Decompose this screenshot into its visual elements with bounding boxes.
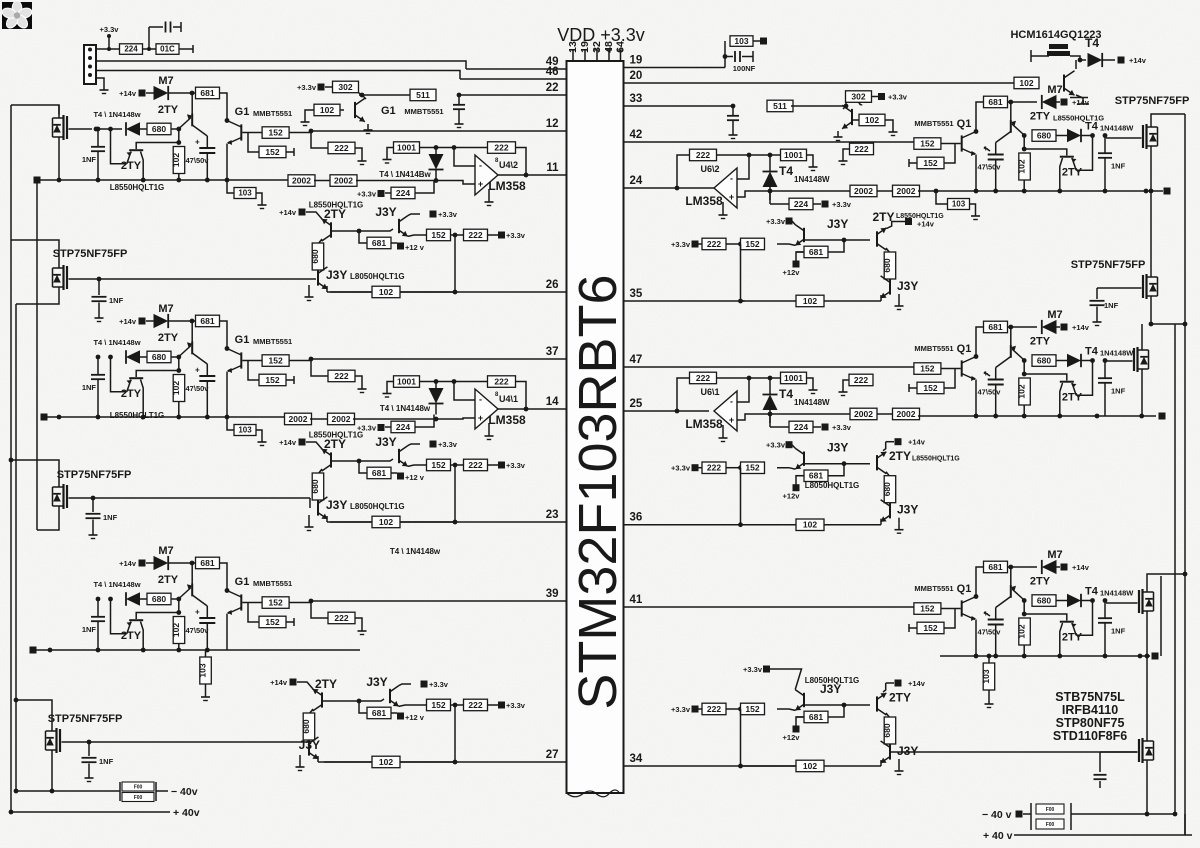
supply +14v (C) xyxy=(119,559,145,568)
resistor 01C xyxy=(156,44,179,55)
svg-text:STM32F103RBT6: STM32F103RBT6 xyxy=(568,274,628,709)
capacitor 1NF (R2) xyxy=(1090,288,1142,326)
svg-text:+14v: +14v xyxy=(279,438,297,447)
svg-text:MMBT5551: MMBT5551 xyxy=(253,109,292,118)
svg-text:222: 222 xyxy=(707,239,721,249)
transistor 2TY upper (C) xyxy=(158,564,207,606)
wire pin 49 xyxy=(466,56,567,69)
resistor 302 xyxy=(846,91,879,106)
wire source R3b xyxy=(1146,615,1148,657)
svg-text:680: 680 xyxy=(1037,355,1051,365)
svg-text:2002: 2002 xyxy=(334,175,353,185)
resistor 680 (RA) xyxy=(1032,130,1056,142)
resistor 222 (B) xyxy=(309,357,367,393)
fuse network left xyxy=(14,782,168,802)
svg-text:680: 680 xyxy=(882,723,892,737)
capacitor C (R4) xyxy=(1094,752,1138,788)
svg-text:152: 152 xyxy=(920,603,934,613)
wire gate M1 xyxy=(69,127,123,132)
svg-text:152: 152 xyxy=(265,147,279,157)
resistor 222 fb (R1) xyxy=(690,149,717,161)
svg-text:152: 152 xyxy=(923,383,937,393)
rail -40v left xyxy=(10,105,12,812)
svg-text:102: 102 xyxy=(865,115,879,125)
rail right mid xyxy=(1160,576,1162,656)
svg-text:2TY: 2TY xyxy=(1030,576,1051,588)
svg-text:152: 152 xyxy=(269,597,283,607)
MOSFET STP75NF75FP (R2) xyxy=(1071,259,1158,300)
resistor 680 (A) xyxy=(147,123,171,135)
svg-text:T4: T4 xyxy=(1085,586,1099,598)
svg-text:+ 40 v: + 40 v xyxy=(983,830,1013,842)
svg-text:L8050HQLT1G: L8050HQLT1G xyxy=(350,272,405,281)
svg-text:2TY: 2TY xyxy=(1030,111,1051,123)
svg-text:12: 12 xyxy=(546,118,559,130)
supply +14v (D3) xyxy=(270,678,296,687)
transistor Q1 top xyxy=(834,94,870,141)
svg-text:102: 102 xyxy=(1017,384,1027,398)
resistor 152 (RA) xyxy=(914,138,961,150)
svg-text:224: 224 xyxy=(396,188,410,198)
svg-text:− 40 v: − 40 v xyxy=(982,809,1012,821)
resistor 680 vert (D1) xyxy=(310,243,324,282)
svg-text:+14v: +14v xyxy=(1072,98,1090,107)
wire gate R1 xyxy=(1106,137,1142,139)
resistor 302 xyxy=(325,81,362,95)
wire + input (R2) xyxy=(737,414,770,420)
resistor 152b (RB) xyxy=(909,369,955,394)
svg-text:102: 102 xyxy=(1017,624,1027,638)
svg-text:2TY: 2TY xyxy=(158,104,179,116)
svg-text:152: 152 xyxy=(431,460,445,470)
resistor 102 pin20 xyxy=(1014,77,1039,89)
svg-text:-: - xyxy=(730,397,733,407)
svg-text:STP75NF75FP: STP75NF75FP xyxy=(57,469,132,481)
svg-text:39: 39 xyxy=(546,588,559,600)
resistor 222 (A) xyxy=(309,129,367,165)
transistor G1 MMBT5551 (B) xyxy=(227,334,292,417)
wire (R2) xyxy=(877,413,893,415)
wire base (RD1) xyxy=(804,238,846,243)
wire pin 12 xyxy=(311,118,567,131)
wire drain R3b xyxy=(1147,572,1187,589)
svg-text:J3Y: J3Y xyxy=(897,744,918,758)
wire (RD2) xyxy=(796,476,804,485)
svg-text:+14v: +14v xyxy=(1129,56,1147,65)
svg-text:222: 222 xyxy=(334,143,348,153)
label STD110F8F6 xyxy=(1053,729,1127,743)
wire xyxy=(11,105,59,115)
label STP80NF75 xyxy=(1056,716,1125,730)
wire xyxy=(353,417,475,422)
label 2TY (RD3) xyxy=(889,691,911,705)
wire base (RD3) xyxy=(804,703,846,708)
label -40v right xyxy=(982,809,1023,821)
svg-text:23: 23 xyxy=(546,509,559,521)
resistor 222 fb (U4-1) xyxy=(488,376,516,388)
wire pin 34 xyxy=(624,753,798,766)
wire pin 33 xyxy=(624,93,734,106)
svg-text:25: 25 xyxy=(630,398,643,410)
wire source M2 xyxy=(16,291,59,305)
supply +3.3v (D3) xyxy=(498,701,526,710)
resistor 152 (D1) xyxy=(427,229,451,241)
svg-text:+14v: +14v xyxy=(270,678,288,687)
transistor J3Y lower (D1) xyxy=(305,267,405,301)
svg-text:681: 681 xyxy=(372,468,386,478)
wire (D1) xyxy=(488,234,499,236)
svg-text:LM358: LM358 xyxy=(685,194,723,208)
svg-text:+12 v: +12 v xyxy=(405,473,425,482)
wire (D1) xyxy=(408,235,426,236)
wire pin 24 xyxy=(624,175,715,188)
svg-text:+12v: +12v xyxy=(783,492,801,501)
svg-text:M7: M7 xyxy=(158,75,173,87)
svg-text:1N4148W: 1N4148W xyxy=(1100,124,1134,133)
MOSFET (R4) xyxy=(1139,738,1154,764)
svg-text:152: 152 xyxy=(920,363,934,373)
supply +3.3v left (RD1) xyxy=(671,240,698,249)
svg-text:+: + xyxy=(195,138,200,147)
wire source R1 xyxy=(1150,150,1152,192)
svg-text:47\50v: 47\50v xyxy=(186,156,210,165)
diode T4 (B) xyxy=(126,350,147,364)
svg-text:103: 103 xyxy=(198,663,208,677)
resistor 102 (RD2) xyxy=(796,519,845,531)
svg-text:152: 152 xyxy=(269,355,283,365)
svg-text:STP80NF75: STP80NF75 xyxy=(1056,716,1125,730)
svg-text:+3.3v: +3.3v xyxy=(100,25,120,34)
svg-text:T4 \ 1N4148w: T4 \ 1N4148w xyxy=(390,547,441,556)
supply +3.3v xyxy=(297,83,324,92)
svg-text:222: 222 xyxy=(334,613,348,623)
svg-text:LM358: LM358 xyxy=(488,413,526,427)
svg-text:+3.3v: +3.3v xyxy=(766,217,786,226)
transistor Q1 MMBT5551 (RA) xyxy=(914,118,978,193)
MOSFET STP75NF75FP (M4) xyxy=(46,713,123,754)
resistor 511 xyxy=(767,100,793,112)
svg-text:1NF: 1NF xyxy=(1104,301,1119,310)
wire pin 39 xyxy=(311,588,567,601)
svg-text:T4: T4 xyxy=(1085,36,1099,50)
svg-text:1NF: 1NF xyxy=(82,625,97,634)
svg-text:19: 19 xyxy=(630,55,643,67)
svg-text:U4\2: U4\2 xyxy=(499,160,518,170)
svg-text:222: 222 xyxy=(854,375,868,385)
resistor 103 row3 xyxy=(981,654,995,708)
svg-text:47\50v: 47\50v xyxy=(978,163,1002,172)
transistor Q1 MMBT5551 (RB) xyxy=(914,343,978,418)
svg-text:47: 47 xyxy=(630,354,643,366)
svg-text:J3Y: J3Y xyxy=(326,498,347,512)
svg-text:152: 152 xyxy=(745,239,759,249)
svg-text:+14v: +14v xyxy=(119,317,137,326)
svg-text:2TY: 2TY xyxy=(158,332,179,344)
svg-text:T4 \ 1N4148w: T4 \ 1N4148w xyxy=(93,338,140,347)
resistor 681 (RC) xyxy=(974,561,1008,599)
MOSFET STP75NF75FP (M3) xyxy=(53,469,132,510)
svg-text:33: 33 xyxy=(630,93,643,105)
wire (RD3) xyxy=(886,713,890,718)
wire xyxy=(727,104,739,139)
label T4 1N4148w xyxy=(379,170,431,179)
transistor J3Y upper (D2) xyxy=(359,435,420,466)
resistor 222 gnd xyxy=(839,143,874,164)
svg-text:L8050HQLT1G: L8050HQLT1G xyxy=(805,676,860,685)
svg-text:T4: T4 xyxy=(779,387,793,401)
wire (D2) xyxy=(318,459,361,474)
transistor 2TY (D2) xyxy=(306,442,331,471)
svg-text:+14v: +14v xyxy=(279,208,297,217)
svg-text:T4: T4 xyxy=(1085,346,1099,358)
op-amp U4 LM358 (U4-2) xyxy=(475,155,526,206)
supply +3.3v (R1) xyxy=(822,200,852,209)
resistor 680 vert (D3) xyxy=(301,713,315,752)
svg-text:-: - xyxy=(479,161,482,171)
wire (B) xyxy=(219,321,229,351)
svg-text:+: + xyxy=(729,415,734,425)
label T4 1N4148w xyxy=(380,404,431,413)
resistor 680 vert (RD1) xyxy=(882,252,896,291)
label HCM1614GQ1223 xyxy=(1010,29,1101,41)
resistor 103 row1 left xyxy=(225,178,267,209)
resistor 222 (D3) xyxy=(464,699,488,711)
label T4 1N4148w (A) xyxy=(93,110,140,119)
transistor J3Y lower (RD3) xyxy=(881,741,919,775)
wire xyxy=(179,45,193,53)
svg-text:1N4148W: 1N4148W xyxy=(1100,349,1134,358)
capacitor 47/50v (RC) xyxy=(978,608,1004,657)
capacitor 1NF (RC) xyxy=(1098,598,1126,656)
wire (R2) xyxy=(768,406,773,423)
svg-text:T4 \ 1N4148w: T4 \ 1N4148w xyxy=(380,404,431,413)
wire + input (R1) xyxy=(737,191,770,197)
supply +3.3v (D1) xyxy=(430,210,458,219)
resistor 681 (RB) xyxy=(974,321,1008,359)
resistor 222 fb (R2) xyxy=(690,372,717,384)
supply +14v (D1) xyxy=(279,208,305,217)
svg-text:F00: F00 xyxy=(134,785,143,791)
diode T4 (A) xyxy=(126,122,147,136)
resistor 152 (RD3) xyxy=(741,703,765,715)
svg-text:152: 152 xyxy=(923,158,937,168)
resistor 222 fb (U4-2) xyxy=(488,142,516,154)
svg-text:302: 302 xyxy=(338,82,352,92)
resistor 152 (C) xyxy=(242,597,311,609)
capacitor C1 xyxy=(149,22,181,50)
diode M7 (B) xyxy=(146,303,196,328)
svg-text:2002: 2002 xyxy=(897,186,916,196)
label L8550HQLT1G xyxy=(110,183,165,192)
svg-text:U4\1: U4\1 xyxy=(499,394,518,404)
svg-text:LM358: LM358 xyxy=(685,417,723,431)
resistor 680 vert (RD3) xyxy=(882,717,896,756)
wire (RD3) xyxy=(796,717,804,726)
node row2 rail xyxy=(41,414,287,421)
resistor 224 (U4-1) xyxy=(385,415,434,433)
svg-text:64: 64 xyxy=(615,41,627,53)
svg-text:681: 681 xyxy=(200,558,214,568)
svg-text:681: 681 xyxy=(372,238,386,248)
svg-text:+: + xyxy=(478,413,483,423)
supply +14v (RD2) xyxy=(883,438,926,451)
svg-text:2TY: 2TY xyxy=(324,437,346,451)
wire (RD1) xyxy=(796,252,804,261)
wire (D2) xyxy=(400,465,457,524)
transistor J3Y upper (RD2) xyxy=(777,441,848,469)
diode T4 (RC) xyxy=(1022,586,1134,608)
svg-text:14: 14 xyxy=(546,396,559,408)
svg-text:J3Y: J3Y xyxy=(827,441,848,455)
transistor 2TY (RD2) xyxy=(844,452,886,474)
wire pin19 up xyxy=(723,41,728,68)
transistor 2TY upper (RB) xyxy=(996,328,1051,368)
capacitor 47/50v (RA) xyxy=(978,143,1004,192)
svg-text:102: 102 xyxy=(379,517,393,527)
svg-text:M7: M7 xyxy=(1047,549,1062,561)
capacitor 1NF (M3) xyxy=(86,496,118,539)
resonator HCM xyxy=(1031,44,1080,62)
wire source M4 xyxy=(50,754,55,794)
VDD +3.3v supply label xyxy=(557,25,645,45)
sense wire (R1) xyxy=(770,190,852,192)
supply +3.3v (D1) xyxy=(498,231,526,240)
svg-text:35: 35 xyxy=(630,288,643,300)
svg-text:680: 680 xyxy=(152,352,166,362)
resistor 680 (RC) xyxy=(1032,595,1056,607)
svg-text:STP75NF75FP: STP75NF75FP xyxy=(1115,95,1190,107)
svg-text:01C: 01C xyxy=(160,45,175,54)
wire (RD2) xyxy=(886,472,890,477)
wire feedback (R1) xyxy=(675,155,690,190)
label 2TY (RD2) xyxy=(889,449,960,463)
svg-text:152: 152 xyxy=(265,375,279,385)
resistor 102 (D1) xyxy=(372,286,400,298)
supply +3.3v left (RD3) xyxy=(671,705,698,714)
wire gate M3 xyxy=(69,498,311,508)
wire gate M2 xyxy=(69,278,317,280)
svg-text:+12 v: +12 v xyxy=(405,713,425,722)
svg-text:47\50v: 47\50v xyxy=(186,626,210,635)
svg-text:680: 680 xyxy=(152,594,166,604)
svg-text:J3Y: J3Y xyxy=(366,675,387,689)
resistor 681 (RD1) xyxy=(796,240,844,258)
svg-text:MMBT5551: MMBT5551 xyxy=(914,584,953,593)
svg-text:1NF: 1NF xyxy=(1111,387,1126,396)
wire (C) xyxy=(171,597,181,602)
svg-text:+14v: +14v xyxy=(119,89,137,98)
wire pin 19 xyxy=(624,55,726,68)
wire gate M4 xyxy=(62,741,310,743)
svg-text:13: 13 xyxy=(567,41,579,53)
resistor 681 (B) xyxy=(196,315,220,327)
wire xyxy=(791,104,848,109)
transistor Q1 MMBT5551 (RC) xyxy=(914,583,978,658)
svg-text:103: 103 xyxy=(238,426,252,435)
diode T4 vertical (R2) xyxy=(763,378,831,410)
svg-text:J3Y: J3Y xyxy=(827,217,848,231)
resistor 102 (RD1) xyxy=(796,295,845,307)
wire gate R4 xyxy=(890,744,1138,752)
resistor 222 (RD1) xyxy=(702,238,726,250)
svg-text:L8550HQLT1G: L8550HQLT1G xyxy=(110,411,165,420)
capacitor 1NF (M4) xyxy=(82,740,114,782)
svg-text:+12v: +12v xyxy=(783,268,801,277)
wire (R1) xyxy=(768,183,773,200)
svg-text:+3.3v: +3.3v xyxy=(832,200,852,209)
diode M7 (RA) xyxy=(1008,84,1063,109)
svg-text:M7: M7 xyxy=(158,545,173,557)
svg-text:2TY: 2TY xyxy=(324,207,346,221)
resistor 102 (D2) xyxy=(372,516,400,528)
svg-text:681: 681 xyxy=(988,562,1002,572)
wire xyxy=(453,93,465,128)
svg-text:Q1: Q1 xyxy=(957,583,972,595)
svg-text:T4 \ 1N4148w: T4 \ 1N4148w xyxy=(93,580,140,589)
wire (RD1) xyxy=(886,248,890,253)
wire xyxy=(96,47,120,51)
resistor 680 (B) xyxy=(147,351,171,363)
resistor 103 row2 left xyxy=(225,415,267,446)
transistor G1 MMBT5551 (A) xyxy=(227,106,292,180)
resistor 152b (RA) xyxy=(909,144,955,169)
wire gate R3 xyxy=(1106,360,1133,362)
svg-text:J3Y: J3Y xyxy=(326,268,347,282)
supply +3.3v (D3) xyxy=(421,680,449,689)
resistor 102 vertical (B) xyxy=(171,357,185,417)
svg-text:+14v: +14v xyxy=(908,438,926,447)
svg-text:1NF: 1NF xyxy=(103,513,118,522)
resistor 224 xyxy=(120,44,143,55)
resistor 680 vert (RD2) xyxy=(882,476,896,515)
svg-text:STD110F8F6: STD110F8F6 xyxy=(1053,729,1127,743)
svg-text:L8550HQLT1G: L8550HQLT1G xyxy=(110,183,165,192)
svg-text:M7: M7 xyxy=(158,303,173,315)
wire (D3) xyxy=(451,703,465,708)
capacitor 47/50v (A) xyxy=(186,136,216,180)
transistor 2TY upper (B) xyxy=(158,322,207,364)
label T4 1N4148w (B) xyxy=(93,338,140,347)
wire (RD1) xyxy=(845,300,881,302)
wire (U4-2) xyxy=(420,145,488,150)
svg-text:Q1: Q1 xyxy=(957,118,972,130)
svg-text:152: 152 xyxy=(745,704,759,714)
svg-text:U6\2: U6\2 xyxy=(700,164,719,174)
node row1 rail xyxy=(34,177,290,184)
transistor 2TY (D3) xyxy=(297,682,322,711)
wire pin 14 xyxy=(497,396,567,409)
resistor 224 (R2) xyxy=(770,414,821,433)
wire (D3) xyxy=(318,761,372,763)
resistor 681 (D1) xyxy=(359,231,397,249)
label 2TY (D2) xyxy=(324,437,346,451)
svg-text:+3.3v: +3.3v xyxy=(766,441,786,450)
svg-text:2TY: 2TY xyxy=(889,691,911,705)
supply +14v (RD1) xyxy=(886,218,934,229)
wire (R1) xyxy=(877,190,893,192)
svg-text:+3.3v: +3.3v xyxy=(506,461,526,470)
transistor 2TY lower (RB) xyxy=(1024,358,1095,416)
supply +3.3v up (RD1) xyxy=(766,217,792,226)
svg-text:+3.3v: +3.3v xyxy=(357,190,377,199)
wire (B) xyxy=(171,355,181,360)
wire (D3) xyxy=(399,705,426,706)
svg-text:+3.3v: +3.3v xyxy=(671,464,691,473)
svg-text:222: 222 xyxy=(696,150,710,160)
resistor 1001 (U4-2) xyxy=(383,142,420,163)
svg-text:2002: 2002 xyxy=(897,409,916,419)
rail left inner xyxy=(36,180,38,530)
